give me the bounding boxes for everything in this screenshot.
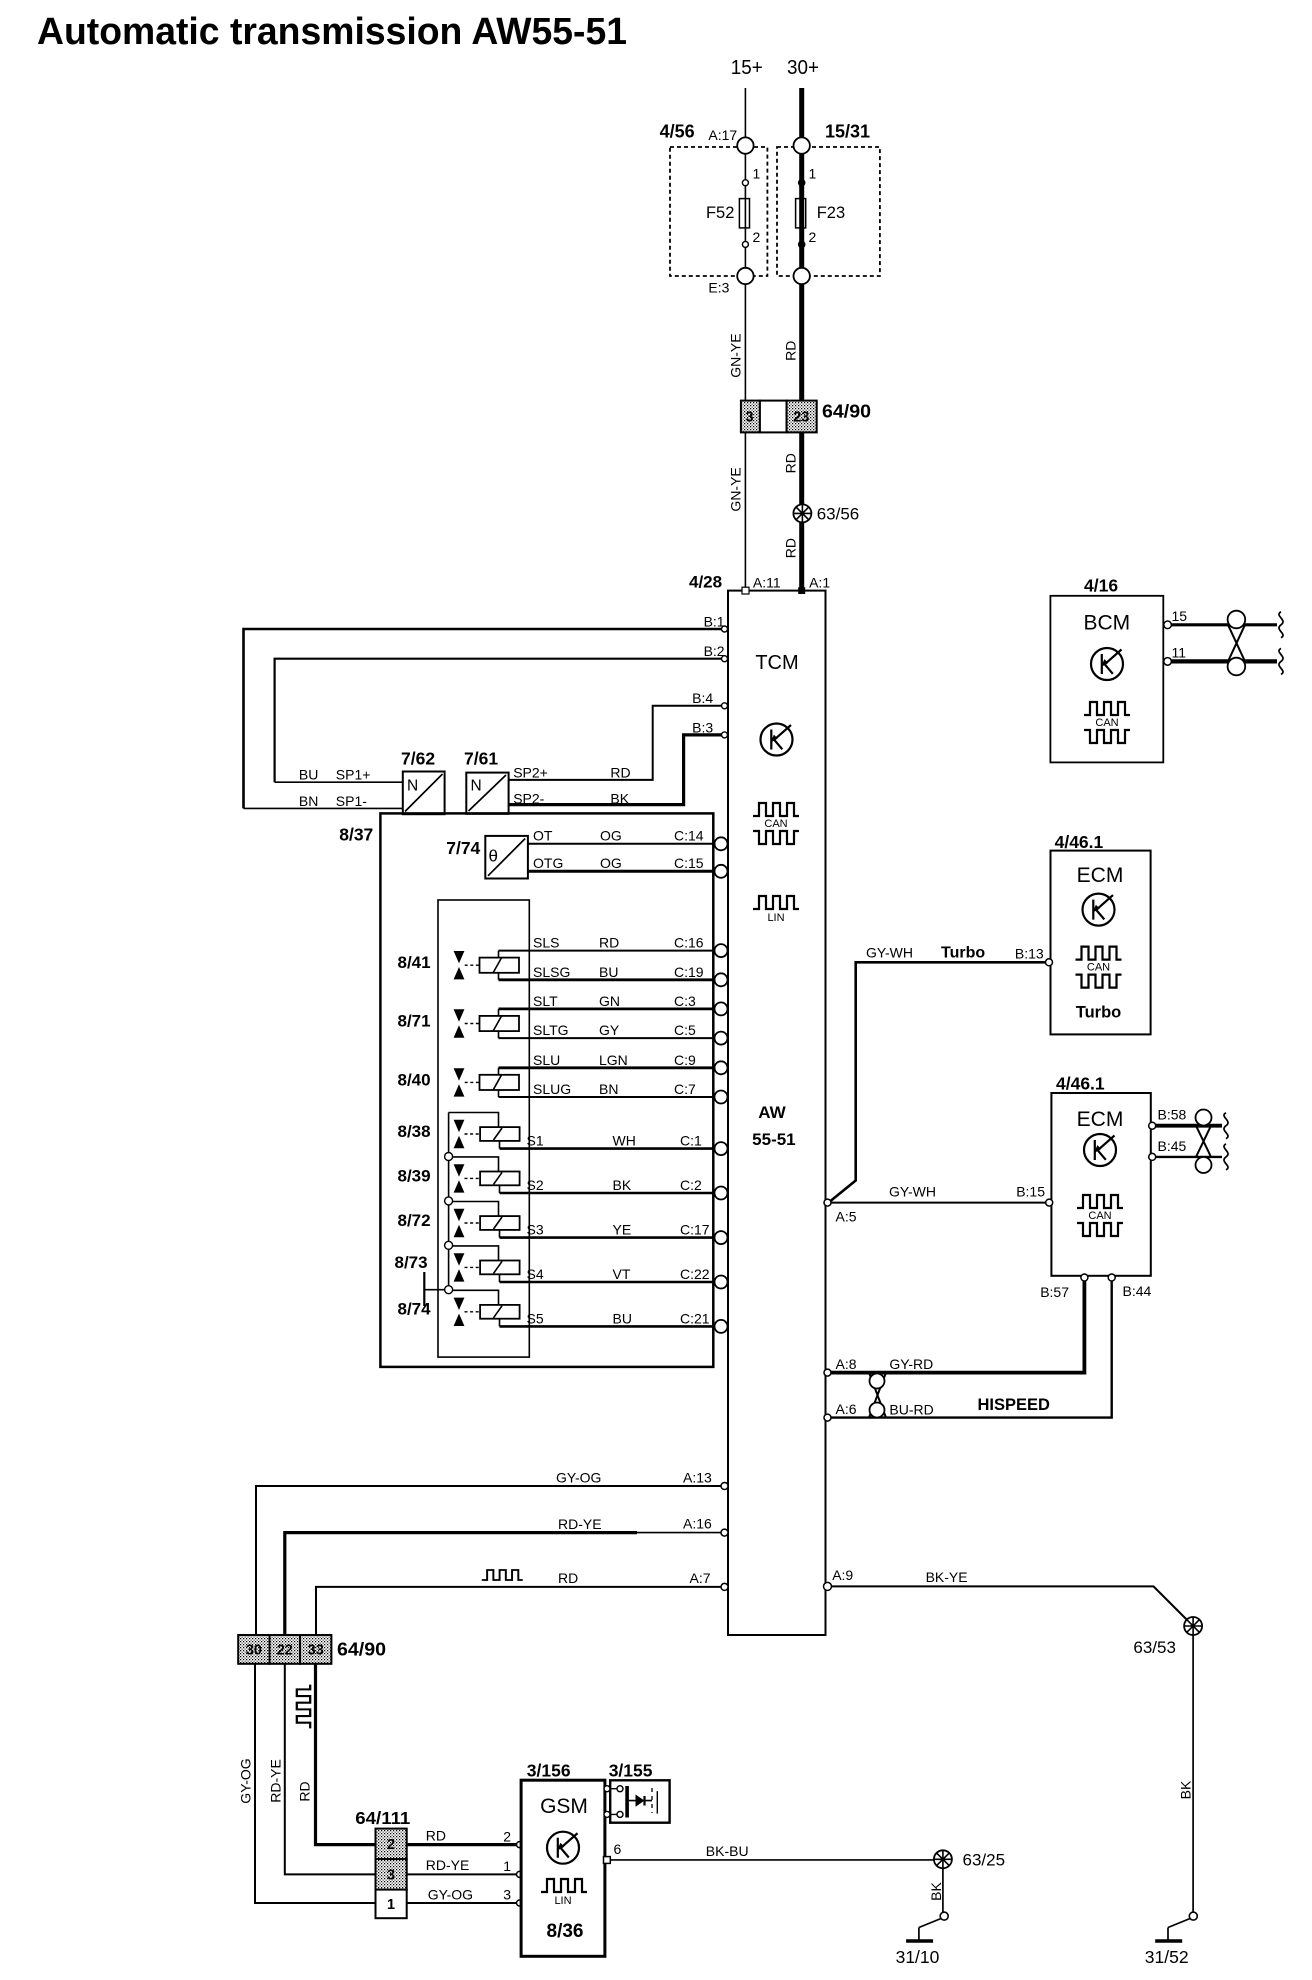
svg-text:RD: RD (610, 765, 630, 781)
svg-text:22: 22 (277, 1643, 293, 1659)
svg-text:64/90: 64/90 (822, 401, 871, 422)
svg-text:BU: BU (613, 1310, 632, 1326)
svg-text:BU-RD: BU-RD (889, 1402, 933, 1418)
svg-text:4/56: 4/56 (660, 122, 695, 142)
svg-text:8/36: 8/36 (547, 1921, 584, 1942)
svg-text:WH: WH (613, 1133, 636, 1149)
svg-text:1: 1 (387, 1897, 395, 1913)
svg-text:GY-WH: GY-WH (866, 945, 913, 961)
svg-text:CAN: CAN (1087, 962, 1110, 974)
svg-text:A:8: A:8 (836, 1356, 857, 1372)
svg-text:A:13: A:13 (683, 1470, 712, 1486)
svg-text:C:19: C:19 (674, 964, 704, 980)
svg-text:4/16: 4/16 (1084, 576, 1118, 596)
svg-text:C:14: C:14 (674, 827, 704, 843)
svg-text:RD-YE: RD-YE (268, 1759, 284, 1803)
svg-text:BK: BK (610, 791, 629, 807)
svg-text:N: N (407, 778, 418, 795)
svg-text:S2: S2 (527, 1177, 544, 1193)
svg-text:1: 1 (809, 166, 817, 182)
svg-text:A:7: A:7 (690, 1570, 711, 1586)
svg-text:B:13: B:13 (1015, 946, 1044, 962)
svg-text:A:11: A:11 (753, 575, 781, 591)
svg-text:GY-OG: GY-OG (238, 1758, 254, 1803)
svg-text:2: 2 (809, 229, 817, 245)
svg-text:2: 2 (387, 1837, 395, 1853)
svg-text:2: 2 (503, 1829, 511, 1845)
svg-text:F23: F23 (817, 204, 845, 222)
svg-text:LIN: LIN (767, 912, 784, 924)
svg-text:SP2+: SP2+ (513, 765, 548, 781)
svg-text:CAN: CAN (764, 818, 787, 830)
svg-text:1: 1 (503, 1858, 511, 1874)
svg-text:C:17: C:17 (680, 1222, 710, 1238)
svg-text:E:3: E:3 (708, 280, 729, 296)
svg-text:RD: RD (783, 453, 799, 473)
svg-text:GY-OG: GY-OG (556, 1470, 601, 1486)
svg-text:31/10: 31/10 (896, 1947, 940, 1967)
svg-text:LIN: LIN (554, 1895, 571, 1907)
svg-text:B:57: B:57 (1040, 1284, 1069, 1300)
svg-text:C:22: C:22 (680, 1266, 710, 1282)
svg-text:SLT: SLT (533, 993, 558, 1009)
svg-text:3: 3 (503, 1887, 511, 1903)
svg-text:15: 15 (1172, 608, 1188, 624)
svg-text:S4: S4 (527, 1266, 544, 1282)
svg-text:BCM: BCM (1083, 612, 1130, 635)
svg-text:C:3: C:3 (674, 993, 696, 1009)
svg-text:33: 33 (308, 1643, 324, 1659)
svg-text:B:3: B:3 (692, 720, 713, 736)
svg-text:SLUG: SLUG (533, 1081, 571, 1097)
svg-text:BN: BN (299, 793, 318, 809)
svg-text:GY-WH: GY-WH (889, 1184, 936, 1200)
svg-text:BK: BK (928, 1882, 944, 1901)
svg-text:S5: S5 (527, 1310, 544, 1326)
svg-text:A:5: A:5 (836, 1209, 857, 1225)
svg-text:GN: GN (599, 993, 620, 1009)
svg-text:55-51: 55-51 (752, 1130, 795, 1149)
svg-text:GN-YE: GN-YE (728, 467, 744, 511)
svg-text:C:9: C:9 (674, 1052, 696, 1068)
svg-text:11: 11 (1172, 645, 1187, 661)
svg-text:GY-OG: GY-OG (428, 1887, 473, 1903)
svg-text:BK: BK (613, 1177, 632, 1193)
svg-text:31/52: 31/52 (1145, 1947, 1189, 1967)
svg-text:YE: YE (613, 1222, 632, 1238)
svg-text:BN: BN (599, 1081, 618, 1097)
svg-text:A:6: A:6 (836, 1401, 857, 1417)
svg-text:CAN: CAN (1095, 717, 1118, 729)
svg-text:ECM: ECM (1077, 1108, 1124, 1131)
svg-text:8/73: 8/73 (395, 1253, 428, 1272)
svg-text:63/53: 63/53 (1133, 1638, 1176, 1657)
svg-text:θ: θ (489, 847, 498, 866)
svg-text:RD: RD (426, 1828, 446, 1844)
svg-text:8/39: 8/39 (398, 1166, 431, 1185)
svg-text:C:7: C:7 (674, 1081, 696, 1097)
svg-text:15/31: 15/31 (825, 122, 870, 142)
svg-text:GSM: GSM (540, 1795, 588, 1818)
svg-text:RD: RD (599, 935, 619, 951)
svg-text:CAN: CAN (1088, 1210, 1111, 1222)
svg-text:Turbo: Turbo (1076, 1004, 1122, 1022)
svg-text:F52: F52 (706, 204, 734, 222)
svg-text:C:1: C:1 (680, 1133, 702, 1149)
svg-text:A:1: A:1 (809, 575, 830, 591)
svg-text:SLSG: SLSG (533, 964, 570, 980)
svg-text:Turbo: Turbo (941, 945, 985, 962)
svg-text:C:15: C:15 (674, 855, 704, 871)
svg-text:3/155: 3/155 (609, 1761, 653, 1781)
svg-text:63/25: 63/25 (963, 1851, 1006, 1870)
svg-text:RD: RD (783, 538, 799, 558)
svg-text:2: 2 (753, 229, 761, 245)
svg-text:SLTG: SLTG (533, 1022, 569, 1038)
svg-text:GN-YE: GN-YE (728, 333, 744, 377)
svg-text:64/90: 64/90 (337, 1638, 386, 1659)
svg-text:SP1-: SP1- (336, 793, 367, 809)
svg-text:4/46.1: 4/46.1 (1055, 832, 1104, 852)
svg-text:4/28: 4/28 (689, 573, 722, 592)
svg-text:SP1+: SP1+ (336, 767, 371, 783)
svg-text:N: N (471, 778, 482, 795)
svg-text:4/46.1: 4/46.1 (1056, 1074, 1105, 1094)
svg-text:B:15: B:15 (1016, 1184, 1045, 1200)
svg-text:8/72: 8/72 (398, 1211, 431, 1230)
svg-text:7/74: 7/74 (446, 838, 480, 858)
svg-text:3/156: 3/156 (527, 1761, 571, 1781)
svg-text:SLU: SLU (533, 1052, 560, 1068)
svg-text:C:5: C:5 (674, 1022, 696, 1038)
svg-text:3: 3 (745, 410, 753, 426)
svg-text:C:16: C:16 (674, 935, 704, 951)
svg-text:RD: RD (297, 1781, 313, 1801)
svg-text:A:16: A:16 (683, 1516, 712, 1532)
svg-text:SP2-: SP2- (513, 791, 544, 807)
svg-text:8/41: 8/41 (398, 953, 431, 972)
svg-text:30+: 30+ (787, 57, 819, 79)
svg-text:BU: BU (299, 767, 318, 783)
svg-text:OG: OG (600, 827, 622, 843)
svg-text:RD: RD (783, 341, 799, 361)
svg-text:3: 3 (387, 1868, 395, 1884)
svg-text:64/111: 64/111 (355, 1808, 410, 1828)
svg-text:OTG: OTG (533, 855, 563, 871)
svg-text:63/56: 63/56 (817, 505, 860, 524)
svg-text:A:17: A:17 (708, 127, 737, 143)
svg-text:OG: OG (600, 855, 622, 871)
svg-text:GY-RD: GY-RD (889, 1356, 933, 1372)
svg-text:TCM: TCM (755, 652, 798, 674)
svg-text:B:45: B:45 (1158, 1138, 1187, 1154)
svg-text:GY: GY (599, 1022, 620, 1038)
svg-text:RD-YE: RD-YE (558, 1516, 602, 1532)
svg-text:8/71: 8/71 (398, 1012, 431, 1031)
svg-text:BK-BU: BK-BU (706, 1843, 749, 1859)
svg-text:SLS: SLS (533, 935, 559, 951)
svg-text:6: 6 (614, 1841, 622, 1857)
svg-text:BU: BU (599, 964, 618, 980)
svg-text:8/38: 8/38 (398, 1122, 431, 1141)
svg-text:ECM: ECM (1077, 864, 1124, 887)
svg-text:B:58: B:58 (1158, 1107, 1187, 1123)
svg-text:C:2: C:2 (680, 1177, 702, 1193)
svg-text:VT: VT (613, 1266, 631, 1282)
svg-text:7/61: 7/61 (464, 749, 498, 769)
svg-text:AW: AW (758, 1103, 786, 1122)
svg-text:RD: RD (558, 1570, 578, 1586)
svg-text:S3: S3 (527, 1222, 544, 1238)
svg-text:1: 1 (753, 166, 761, 182)
svg-text:HISPEED: HISPEED (978, 1396, 1051, 1414)
svg-text:S1: S1 (527, 1133, 544, 1149)
svg-text:BK-YE: BK-YE (926, 1569, 968, 1585)
svg-text:8/37: 8/37 (339, 825, 373, 845)
svg-text:8/40: 8/40 (398, 1070, 431, 1089)
svg-text:8/74: 8/74 (398, 1300, 432, 1319)
svg-text:BK: BK (1178, 1780, 1194, 1799)
svg-text:7/62: 7/62 (401, 749, 435, 769)
svg-text:15+: 15+ (731, 57, 763, 79)
svg-text:B:4: B:4 (692, 690, 713, 706)
svg-text:OT: OT (533, 827, 553, 843)
svg-text:Automatic transmission AW55-51: Automatic transmission AW55-51 (37, 11, 627, 53)
svg-text:30: 30 (246, 1643, 262, 1659)
svg-text:RD-YE: RD-YE (426, 1857, 470, 1873)
svg-text:A:9: A:9 (832, 1567, 853, 1583)
svg-text:C:21: C:21 (680, 1310, 710, 1326)
svg-text:B:44: B:44 (1123, 1283, 1152, 1299)
svg-text:23: 23 (793, 410, 809, 426)
svg-text:LGN: LGN (599, 1052, 628, 1068)
